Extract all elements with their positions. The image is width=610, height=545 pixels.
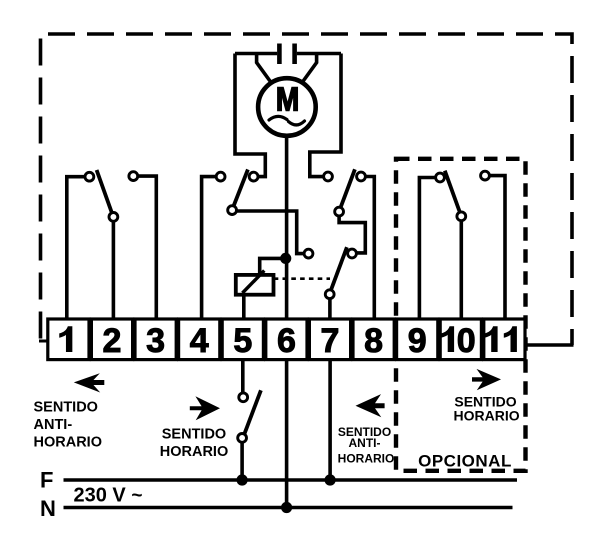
wire junction to coil K1 [260, 258, 286, 274]
svg-text:ANTI-: ANTI- [34, 417, 73, 433]
wire motor right leg [310, 54, 341, 177]
terminal block 4 [179, 319, 220, 360]
wire pole S1 to terminal 2 [112, 221, 116, 319]
contact terminal 1 [85, 172, 94, 181]
outer dashed frame [41, 34, 573, 345]
svg-text:3: 3 [146, 322, 165, 360]
contact E terminal 8 [357, 172, 366, 181]
terminal block 7 [309, 319, 350, 360]
wire terminal 3 riser [138, 176, 157, 319]
label sentido anti-horario left [34, 400, 102, 451]
svg-text:9: 9 [408, 322, 427, 360]
svg-text:8: 8 [364, 322, 383, 360]
switch S2 pole [228, 206, 237, 215]
label sentido anti-horario right [338, 425, 395, 466]
switch S6 blade [245, 390, 261, 433]
wire terminal 1 riser [67, 177, 85, 319]
wire terminal 5 to switch S6 [241, 360, 245, 394]
terminal block 5 [222, 319, 263, 360]
junction node coil tap [280, 253, 291, 264]
contact D motor right [324, 172, 333, 181]
arrow anti-horario right [356, 394, 385, 417]
terminal block 10 [440, 319, 481, 360]
wire funnel left to motor [257, 54, 272, 84]
wire coil K1 to terminal 5 [242, 295, 246, 319]
svg-text:HORARIO: HORARIO [454, 407, 520, 423]
contact terminal 3 [129, 172, 138, 181]
wire S6 pole to F line [240, 442, 244, 480]
switch S6 pole [238, 434, 247, 443]
wire capacitor left to motor loop [235, 52, 277, 56]
terminal block 1 [48, 319, 89, 360]
switch S5 pole [457, 212, 466, 221]
switch S1 blade [97, 170, 112, 212]
terminal block 8 [353, 319, 394, 360]
wire motor left leg [235, 54, 265, 177]
wire terminal 7 to F line [328, 360, 332, 480]
svg-text:HORARIO: HORARIO [338, 451, 395, 465]
contact C [304, 249, 313, 258]
terminal block 6 [266, 319, 307, 360]
wire S2 pole to contact C [237, 211, 304, 254]
wire S4 pole to terminal 7 [328, 299, 332, 319]
svg-text:5: 5 [233, 322, 252, 360]
svg-text:HORARIO: HORARIO [160, 444, 228, 460]
terminal block 11 [484, 319, 525, 360]
wire motor shaft to terminal 6 [285, 136, 289, 319]
arrow horario mid [190, 396, 220, 420]
junction on F line at switch [237, 474, 248, 485]
switch S2 blade [234, 170, 248, 207]
contact terminal 11 [481, 171, 490, 180]
switch S1 pole [109, 213, 118, 222]
arrow horario opcional [472, 369, 501, 390]
contact A terminal 4 [216, 172, 225, 181]
wire terminal 4 riser [202, 177, 217, 319]
svg-text:F: F [40, 468, 53, 493]
label sentido horario opcional [454, 393, 520, 423]
svg-text:6: 6 [277, 322, 296, 360]
junction on N line [281, 502, 292, 513]
switch S5 blade [445, 171, 460, 212]
wire S3 pole to contact G [339, 216, 365, 253]
svg-text:4: 4 [190, 322, 209, 360]
F phase line [64, 478, 518, 481]
label sentido horario mid [160, 427, 228, 461]
wire terminal 9 riser [419, 178, 435, 320]
svg-text:SENTIDO: SENTIDO [34, 400, 98, 416]
wire frame link to terminal 11 [526, 343, 574, 347]
svg-text:7: 7 [321, 322, 340, 360]
contact B motor left [249, 172, 258, 181]
switch S3 pole [335, 207, 344, 216]
motor M1 [258, 78, 316, 136]
svg-text:2: 2 [103, 322, 122, 360]
wire funnel right to motor [301, 54, 316, 84]
OPCIONAL dashed box [396, 159, 526, 471]
wire frame link to terminal 1 [39, 340, 48, 343]
wire terminal 11 riser [489, 176, 505, 319]
switch S4 blade [331, 247, 347, 290]
arrow anti-horario left [74, 373, 105, 392]
switch S3 blade [341, 169, 355, 207]
contact G [348, 249, 357, 258]
wire S5 pole to terminal 10 [459, 221, 463, 319]
terminal block 9 [397, 319, 438, 360]
svg-text:M: M [276, 81, 299, 118]
svg-text:N: N [40, 496, 56, 521]
wire contact E to terminal 8 [365, 177, 374, 320]
terminal block 2 [91, 319, 132, 360]
wire capacitor right to motor loop [297, 52, 341, 56]
mechanical link dashed [274, 277, 330, 280]
switch S4 pole [325, 290, 334, 299]
terminal block 3 [135, 319, 176, 360]
N neutral line [64, 506, 513, 509]
wire terminal 6 to N line [285, 360, 289, 508]
svg-text:HORARIO: HORARIO [34, 435, 102, 451]
svg-text:OPCIONAL: OPCIONAL [418, 451, 512, 470]
svg-text:ANTI-: ANTI- [349, 436, 381, 450]
svg-text:SENTIDO: SENTIDO [162, 427, 226, 443]
junction on F line at terminal 7 [325, 474, 336, 485]
timer coil K1 [236, 271, 274, 295]
switch S6 top contact [239, 393, 248, 402]
contact terminal 9 [436, 173, 445, 182]
svg-text:0: 0 [457, 322, 476, 360]
capacitor C1 [279, 44, 294, 65]
svg-text:230 V ~: 230 V ~ [74, 485, 143, 507]
